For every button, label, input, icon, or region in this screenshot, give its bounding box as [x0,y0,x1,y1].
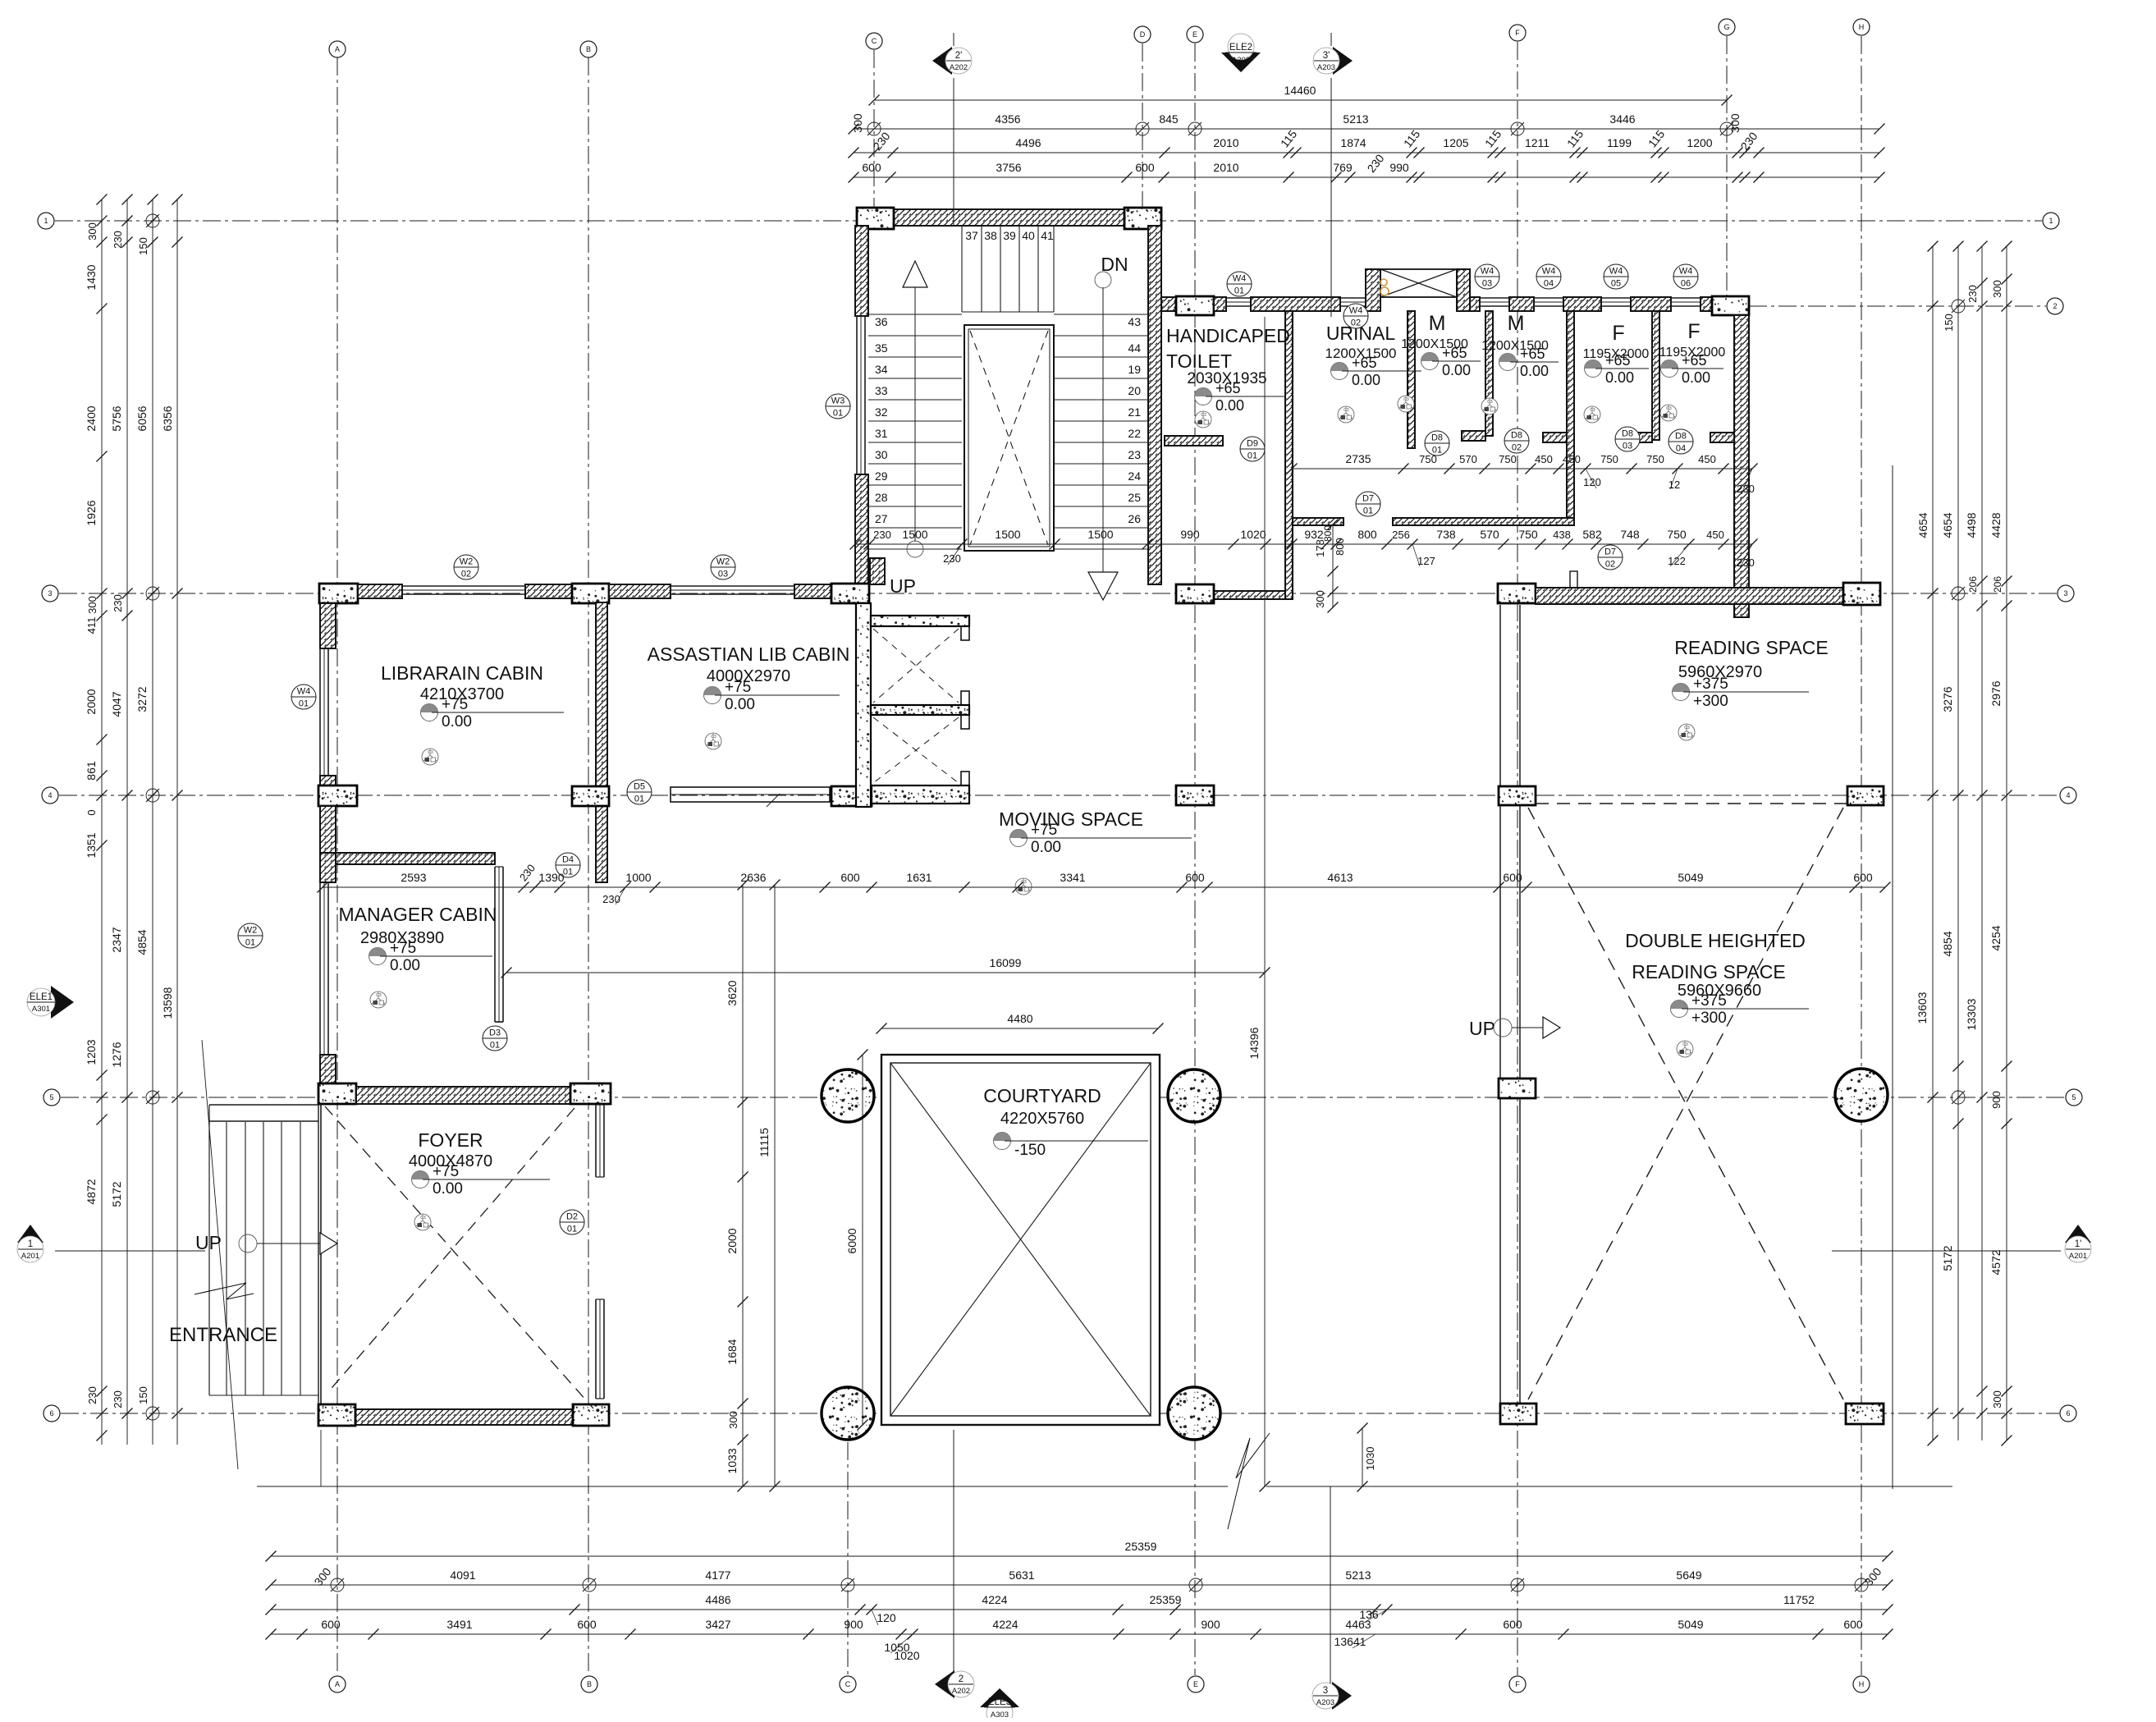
svg-text:450: 450 [1706,529,1724,541]
svg-text:16099: 16099 [990,956,1022,969]
svg-text:750: 750 [1518,528,1538,541]
left grid1 slashcircle [146,214,159,227]
svg-text:W4: W4 [1609,267,1623,277]
svg-text:A202: A202 [952,1687,970,1696]
F1 door stub [1628,433,1652,442]
svg-text:4356: 4356 [995,112,1020,126]
grid line 3 [59,593,2057,594]
column at G-H grid2 [1712,296,1749,315]
svg-text:01: 01 [1363,506,1373,516]
svg-text:900: 900 [1201,1618,1220,1631]
svg-text:4220X5760: 4220X5760 [1000,1110,1084,1128]
svg-text:4047: 4047 [110,691,123,717]
svg-text:HANDICAPED: HANDICAPED [1166,325,1290,346]
svg-text:35: 35 [875,341,888,355]
svg-text:4254: 4254 [1989,925,2003,950]
grid bubble 1 left [38,213,54,229]
svg-text:1': 1' [2075,1239,2082,1249]
svg-text:600: 600 [1185,871,1205,884]
svg-text:W4: W4 [1542,267,1556,277]
reading space left wall (F) [1499,605,1501,1404]
svg-text:24: 24 [1128,469,1141,483]
column B grid3 [572,584,609,603]
round column courtyard SW [822,1387,874,1440]
svg-text:450: 450 [1563,453,1581,465]
tag W4/01 left wall [291,685,316,709]
svg-text:450: 450 [1535,453,1553,465]
svg-text:300: 300 [851,113,864,133]
grid bubble 1 right [2043,213,2059,229]
window W4/03 [1480,297,1509,299]
svg-text:+375: +375 [1693,676,1728,693]
bottom dim row 3 [271,1609,1888,1610]
svg-text:W4: W4 [1233,274,1247,284]
svg-text:3272: 3272 [135,686,149,712]
grid bubble E bottom [1188,1676,1204,1692]
elevator middle wall [871,705,969,715]
svg-text:300: 300 [1728,113,1742,133]
svg-text:UP: UP [195,1232,222,1253]
svg-text:C: C [845,1680,851,1688]
svg-text:13303: 13303 [1965,998,1978,1030]
svg-text:1020: 1020 [894,1649,919,1662]
svg-text:C3: C3 [1403,397,1409,402]
section line 1-1' left [55,1250,205,1252]
stair-corridor wall stub above grid3 [870,558,885,584]
svg-text:01: 01 [563,868,573,877]
svg-text:2347: 2347 [110,927,123,952]
svg-text:ELE1: ELE1 [30,992,53,1002]
corridor wall right of HT [1293,518,1343,525]
svg-text:01: 01 [299,699,309,709]
svg-text:+65: +65 [1605,352,1631,369]
shaft 2 dashed X [873,717,959,783]
svg-text:02: 02 [1605,560,1615,570]
section line 2-2' bottom [953,1430,954,1676]
svg-text:01: 01 [567,1225,577,1234]
svg-text:570: 570 [1459,453,1477,465]
cabin top wall seg 2 [525,584,572,598]
svg-text:E: E [1193,1680,1198,1688]
left wall above grid5 [320,1055,336,1083]
svg-text:28: 28 [875,491,888,504]
svg-text:01: 01 [245,938,255,948]
svg-text:300: 300 [1991,1390,2003,1408]
svg-text:13598: 13598 [161,987,174,1019]
grid bubble 5 right [2066,1089,2082,1106]
courtyard X diagonals [890,1063,1151,1416]
tag D4/01 [556,853,580,877]
svg-text:2976: 2976 [1989,680,2003,706]
svg-text:11115: 11115 [758,1128,771,1157]
manager cabin partition cap [495,1021,503,1023]
svg-text:4498: 4498 [1965,512,1978,538]
double height dashed X [1528,808,1843,1399]
svg-text:845: 845 [1159,112,1179,126]
svg-text:TOILET: TOILET [1166,350,1232,372]
stair void dashed X [970,331,1048,545]
elevator top wall [871,616,969,626]
svg-text:5: 5 [49,1093,53,1101]
grid bubble F top [1509,25,1526,41]
section marker ELE3 A303 bottom [980,1688,1019,1707]
entrance stair steps [226,1122,227,1395]
svg-text:2: 2 [2053,302,2057,310]
tag D3/01 [483,1026,507,1051]
svg-text:+75: +75 [725,679,751,696]
svg-text:+300: +300 [1691,1010,1727,1027]
tag D8/03 [1615,427,1640,451]
svg-text:39: 39 [1003,229,1016,242]
svg-text:230: 230 [112,594,124,612]
toilet top wall seg at stair [1161,297,1176,311]
grid line C (bottom) [847,1442,849,1675]
svg-text:+75: +75 [390,940,416,957]
svg-text:1500: 1500 [902,528,927,541]
svg-text:31: 31 [875,427,888,440]
svg-text:G: G [1723,23,1729,31]
svg-text:0.00: 0.00 [442,713,472,730]
svg-text:M: M [1429,312,1446,335]
svg-text:3341: 3341 [1060,871,1085,884]
svg-text:1199: 1199 [1607,136,1632,149]
svg-text:0.00: 0.00 [1520,363,1549,379]
stair top landing divisions [961,226,963,312]
svg-text:READING SPACE: READING SPACE [1632,961,1785,982]
stair block top wall (grid 1) [894,209,1124,226]
svg-text:438: 438 [1553,529,1571,541]
reading space right edge line [1892,465,1893,1489]
corridor dim row y663 [855,543,1752,545]
svg-text:D5: D5 [634,782,645,792]
svg-text:01: 01 [634,795,644,804]
svg-text:A301: A301 [32,1005,50,1014]
svg-text:A: A [335,1680,340,1688]
elevator mid-right jamb lower [961,715,969,729]
svg-text:01: 01 [1247,451,1257,461]
svg-text:LIBRARAIN CABIN: LIBRARAIN CABIN [381,662,543,684]
svg-text:+65: +65 [1442,345,1467,361]
stair left wall lower [855,474,868,584]
toilet top wall seg 3 [1251,297,1340,311]
svg-text:4177: 4177 [705,1569,730,1582]
svg-text:13641: 13641 [1334,1635,1366,1648]
interior vdim x944 (11115) [774,885,776,1486]
toilet bottom wall notch [1570,571,1577,588]
grid bubble H bottom [1853,1676,1870,1692]
column stair top-left [857,208,894,229]
column C grid3 [831,584,869,603]
svg-text:1351: 1351 [85,832,98,858]
svg-text:W4: W4 [1349,306,1363,316]
svg-text:0.00: 0.00 [1682,369,1710,386]
svg-text:ASSASTIAN LIB CABIN: ASSASTIAN LIB CABIN [648,643,850,665]
svg-text:14396: 14396 [1247,1027,1261,1059]
svg-text:37: 37 [965,229,978,242]
svg-text:4463: 4463 [1345,1618,1371,1631]
interior vdim x905 (3620/2000/1684/300/1033) [742,885,744,1486]
svg-text:300: 300 [86,222,98,240]
entrance stair landing [209,1104,318,1106]
svg-text:C3: C3 [1201,413,1206,418]
tag W4/02 toilet [1343,304,1368,328]
svg-text:C3: C3 [428,750,433,755]
svg-text:230: 230 [1966,285,1979,303]
reading space top wall [1536,588,1843,604]
svg-text:C3: C3 [1666,406,1672,411]
svg-text:UP: UP [890,575,916,597]
window W4/05 [1601,297,1631,299]
svg-text:C3: C3 [420,1216,426,1221]
svg-text:C3: C3 [1590,408,1595,413]
column at E grid2 [1176,296,1214,315]
vdim x1541 (14396) [1264,317,1266,1486]
ground line break [1228,1433,1270,1529]
courtyard inner border [890,1063,1151,1416]
svg-text:+75: +75 [433,1163,459,1180]
svg-text:0.00: 0.00 [1031,839,1061,856]
grid bubble E top [1187,26,1203,43]
svg-text:27: 27 [875,512,888,525]
svg-text:3446: 3446 [1609,112,1635,126]
svg-text:5172: 5172 [110,1181,123,1207]
shaft 1 dashed X [873,629,959,703]
svg-text:4224: 4224 [992,1618,1018,1631]
svg-text:3620: 3620 [726,980,739,1005]
svg-text:4: 4 [48,791,52,799]
grid bubble C top [866,33,882,49]
svg-text:6356: 6356 [161,405,174,431]
svg-text:230: 230 [112,231,124,249]
svg-text:4613: 4613 [1327,871,1353,884]
courtyard outer border [881,1055,1160,1425]
left grid3 slashcircle [146,587,159,600]
column E grid4 [1176,785,1214,805]
svg-text:4654: 4654 [1941,512,1954,538]
entrance leader diagonal [202,1040,238,1469]
tag D2/01 [560,1210,584,1234]
tag W2/01 left wall [238,923,263,948]
svg-text:C3: C3 [376,993,382,998]
svg-text:2': 2' [955,51,963,61]
svg-text:2000: 2000 [726,1228,739,1253]
svg-text:H: H [1859,1680,1865,1688]
stair landing bottom edge [962,311,1054,313]
left dim col 3 [152,199,153,1445]
tag W4/04 [1536,264,1561,289]
column H grid3 [1843,583,1880,605]
column stair top-right [1124,208,1161,229]
svg-text:03: 03 [1623,442,1632,451]
column C-D grid4 [831,786,872,806]
svg-text:+65: +65 [1520,346,1545,362]
svg-text:14460: 14460 [1284,84,1316,97]
svg-text:932: 932 [1304,528,1324,541]
svg-text:206: 206 [1967,576,1979,593]
svg-text:600: 600 [840,871,860,884]
left dim col 4 [176,199,178,1445]
svg-text:230: 230 [86,1386,98,1404]
svg-text:3276: 3276 [1941,686,1954,712]
tag D5/01 [627,780,652,804]
svg-text:1203: 1203 [85,1039,98,1065]
svg-text:4854: 4854 [135,929,149,955]
cabin top wall seg 3 [609,584,671,598]
grid line G [1726,36,1728,298]
svg-text:+375: +375 [1691,992,1727,1010]
F1 right partition [1652,311,1659,440]
door D5 leaf (open) [671,787,830,802]
svg-text:+65: +65 [1682,352,1707,369]
F2 door stub [1710,433,1734,442]
svg-text:D4: D4 [562,855,574,865]
svg-text:230: 230 [602,893,620,905]
svg-text:206: 206 [1992,576,2003,593]
svg-text:1020: 1020 [1240,528,1266,541]
svg-text:C3: C3 [711,735,716,740]
ground line [257,1486,1228,1487]
svg-text:22: 22 [1128,427,1141,440]
manager cabin corner [320,853,336,882]
toilet dim row y571 [1292,468,1752,469]
bottom dim row 4 [271,1633,1888,1635]
grid line H [1861,36,1862,1675]
svg-text:1: 1 [43,217,48,225]
grid line E [1194,44,1196,1675]
svg-text:1500: 1500 [1087,528,1113,541]
svg-text:3': 3' [1323,51,1330,61]
round column courtyard NW [822,1069,874,1122]
column H grid6 [1846,1404,1884,1424]
svg-text:25359: 25359 [1125,1540,1157,1553]
column A grid4 [318,785,357,806]
svg-text:1000: 1000 [625,871,651,884]
grid line 4 [59,795,2059,796]
svg-text:4496: 4496 [1015,136,1041,149]
svg-text:D8: D8 [1622,429,1633,439]
svg-text:738: 738 [1436,528,1456,541]
svg-text:1: 1 [28,1239,33,1249]
svg-text:ELE3: ELE3 [988,1697,1011,1707]
section line 3-3' bottom [1330,1486,1331,1688]
foyer right jamb upper [595,1105,597,1177]
svg-text:600: 600 [577,1618,597,1631]
svg-text:+75: +75 [1031,822,1057,839]
elevator top-right jamb [961,626,969,640]
svg-text:+65: +65 [1352,355,1377,371]
svg-text:02: 02 [1512,443,1522,453]
grid line F [1517,42,1518,1675]
svg-text:2010: 2010 [1213,161,1238,174]
tag W2/03 [711,555,735,579]
grid bubble H top [1853,19,1870,35]
svg-text:19: 19 [1128,363,1141,376]
svg-text:0: 0 [85,809,98,815]
svg-text:READING SPACE: READING SPACE [1674,637,1828,658]
grid bubble F bottom [1509,1676,1526,1692]
svg-text:C3: C3 [1343,408,1349,413]
svg-text:300: 300 [1991,280,2003,298]
svg-text:1276: 1276 [110,1042,123,1067]
svg-text:38: 38 [984,229,997,242]
svg-text:02: 02 [461,570,471,579]
section marker 1' A201 right [2065,1225,2091,1243]
svg-text:06: 06 [1681,279,1691,289]
interior dim 16099 [506,972,1265,973]
column at F grid3 (toilet bottom) [1498,584,1536,603]
tag W4/05 [1604,264,1628,289]
svg-text:150: 150 [137,237,149,255]
tag W3/01 [826,394,850,419]
svg-text:B: B [586,45,591,53]
svg-text:41: 41 [1041,229,1054,242]
grid line D [1142,44,1143,210]
svg-text:44: 44 [1128,341,1141,355]
svg-text:36: 36 [875,315,888,328]
svg-text:W2: W2 [460,557,474,567]
svg-text:32: 32 [875,405,888,419]
svg-text:D8: D8 [1675,432,1687,442]
exhaust fan box [1380,269,1457,297]
cabin top wall seg 4 [794,584,831,598]
svg-text:127: 127 [1417,555,1435,567]
grid bubble A top [329,41,346,57]
M1 door stub [1462,431,1485,441]
svg-text:600: 600 [862,161,881,174]
svg-text:2400: 2400 [85,405,98,431]
grid bubble 2 right [2047,298,2063,314]
svg-text:C: C [872,37,877,45]
svg-text:02: 02 [1351,318,1361,328]
svg-text:5172: 5172 [1941,1245,1954,1271]
window W2/03 opening [671,585,794,587]
svg-text:570: 570 [1480,528,1499,541]
right dim col 2 [1957,246,1959,1440]
svg-text:230: 230 [873,529,891,541]
svg-text:5: 5 [2071,1093,2076,1101]
tag D8/04 [1668,429,1693,454]
grid bubble 6 left [43,1405,60,1422]
column A grid3 [319,584,358,603]
svg-text:0.00: 0.00 [1352,372,1380,388]
svg-text:MANAGER CABIN: MANAGER CABIN [339,904,497,925]
svg-text:D2: D2 [566,1212,578,1222]
svg-text:0.00: 0.00 [1215,397,1244,414]
HT dim 2735 leader y571 extension [1291,469,1293,476]
svg-text:H: H [1859,23,1865,31]
svg-text:+65: +65 [1215,380,1241,396]
svg-text:6: 6 [2066,1409,2070,1417]
svg-text:MOVING SPACE: MOVING SPACE [999,808,1143,830]
svg-text:+300: +300 [1693,693,1728,710]
grid bubble 5 left [43,1089,60,1106]
svg-text:A: A [335,45,340,53]
exhaust fan box right jamb [1457,269,1470,311]
svg-text:B: B [587,1680,592,1688]
column B grid4 [572,786,609,806]
section line 3-3' top [1330,78,1332,317]
svg-text:5213: 5213 [1345,1569,1371,1582]
svg-text:750: 750 [1667,528,1687,541]
handicapped toilet right wall [1285,311,1293,599]
interior dim row y1081 (cabins/moving) [323,886,1885,888]
svg-text:900: 900 [844,1618,863,1631]
toilet top wall seg 2 [1214,297,1226,311]
svg-text:26: 26 [1128,512,1141,525]
foyer right jamb lower [595,1299,597,1399]
window W4/02 toilet top [1340,297,1366,299]
svg-text:861: 861 [85,761,98,781]
